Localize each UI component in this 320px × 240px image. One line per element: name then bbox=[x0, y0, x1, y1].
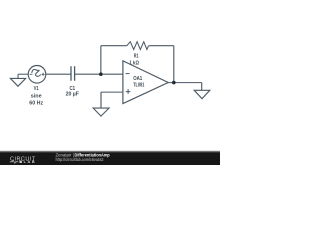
op-amp minus pin label bbox=[126, 73, 130, 75]
V1 minus sign bbox=[30, 73, 33, 75]
ground (left, at V1) bbox=[10, 78, 25, 86]
wire: feedback down to output node bbox=[173, 46, 175, 83]
resistor R1 bbox=[127, 42, 149, 50]
V1 plus sign bbox=[42, 73, 45, 76]
wire: feedback vertical from node A bbox=[100, 46, 102, 74]
wire: left ground to V1 bbox=[18, 73, 29, 75]
ground (right, at output) bbox=[194, 90, 210, 98]
svg-text:1 kΩ: 1 kΩ bbox=[129, 60, 139, 66]
wire: V1 to C1 bbox=[46, 73, 71, 75]
svg-text:http://circuitlab.com/c6va4s2: http://circuitlab.com/c6va4s2 bbox=[56, 157, 105, 162]
CircuitLab logo: LAB bbox=[20, 161, 22, 163]
voltage source V1 circle bbox=[28, 66, 46, 84]
svg-text:sine: sine bbox=[31, 93, 42, 99]
svg-text:OA1: OA1 bbox=[133, 76, 142, 82]
ground (below op-amp non-inverting input) bbox=[93, 108, 109, 116]
svg-text:R1: R1 bbox=[134, 54, 139, 60]
wire: non-inverting input bbox=[101, 91, 123, 93]
wire: op-amp output bbox=[168, 82, 202, 84]
wire: non-inverting input ground stem bbox=[100, 92, 102, 108]
wire: R1 to right corner bbox=[149, 45, 174, 47]
node A junction dot bbox=[99, 72, 103, 76]
svg-text:60 Hz: 60 Hz bbox=[29, 101, 43, 107]
op-amp OA1 triangle bbox=[123, 61, 168, 104]
capacitor C1 plates bbox=[71, 66, 75, 81]
V1 sine symbol bbox=[32, 69, 41, 76]
wire: output to right ground stem bbox=[201, 83, 203, 91]
wire: left ground stem bbox=[17, 74, 19, 78]
wire: C1 to op-amp inverting input bbox=[75, 73, 123, 75]
svg-text:20 µF: 20 µF bbox=[66, 92, 80, 98]
wire: feedback horizontal to R1 bbox=[101, 45, 127, 47]
output node junction dot bbox=[172, 81, 176, 85]
op-amp plus pin label bbox=[126, 89, 131, 94]
svg-text:LAB: LAB bbox=[24, 160, 37, 164]
svg-text:TL081: TL081 bbox=[133, 82, 144, 88]
CircuitLab logo: wave glyph bbox=[10, 160, 19, 163]
svg-text:V1: V1 bbox=[34, 86, 39, 92]
